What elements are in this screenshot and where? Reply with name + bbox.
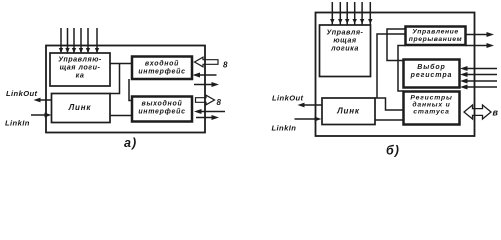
outer box b xyxy=(316,13,475,137)
arrowheads of top input arrows b xyxy=(330,19,372,24)
input interface block xyxy=(132,57,192,80)
wire xyxy=(331,2,333,25)
arrow out of input interface (right) xyxy=(194,84,214,86)
control logic block b xyxy=(320,25,371,77)
arrowheads of top input arrows a xyxy=(59,48,99,53)
wire xyxy=(67,28,69,53)
wire: interrupt ctrl to register select xyxy=(387,29,406,61)
svg-text:регистра: регистра xyxy=(410,72,453,79)
svg-text:8: 8 xyxy=(217,98,222,107)
wire: vertical branch to link xyxy=(119,64,121,95)
wire xyxy=(60,28,62,53)
svg-text:интерфейс: интерфейс xyxy=(138,68,185,76)
wire xyxy=(466,80,497,82)
arrow into input interface (solid, left) xyxy=(199,74,217,76)
interrupt output arrows xyxy=(466,34,491,36)
bus arrow out of output interface (hollow, pointing right) xyxy=(196,95,215,105)
wire xyxy=(80,28,82,53)
data/status registers block xyxy=(404,92,460,125)
svg-text:8: 8 xyxy=(223,61,228,70)
outer box a xyxy=(46,46,205,133)
control logic block a xyxy=(50,53,110,86)
svg-text:Регистры: Регистры xyxy=(410,95,452,102)
wire xyxy=(339,2,341,25)
link block b xyxy=(322,98,375,125)
bidirectional data bus arrow (hollow) xyxy=(464,105,491,119)
svg-text:данных и: данных и xyxy=(412,101,450,109)
wire xyxy=(96,28,98,53)
wire xyxy=(87,28,89,53)
wire xyxy=(369,2,371,25)
wire xyxy=(354,2,356,25)
svg-text:LinkIn: LinkIn xyxy=(272,124,297,133)
svg-text:выходной: выходной xyxy=(142,100,183,108)
LinkOut wire b xyxy=(301,104,322,106)
svg-text:входной: входной xyxy=(145,60,179,68)
wire: interrupt ctrl bottom to registers xyxy=(398,46,406,92)
wire: vertical bus V1 link to interrupt ctrl xyxy=(377,34,406,98)
wire: link top edge to bus junction xyxy=(110,93,120,95)
svg-text:прерыванием: прерыванием xyxy=(409,36,463,43)
wire xyxy=(73,28,75,53)
bus arrow into input interface (hollow, pointing left) xyxy=(195,57,219,67)
wire: link to registers bottom xyxy=(375,119,404,121)
svg-text:Линк: Линк xyxy=(336,107,360,116)
register select input arrows xyxy=(466,68,497,70)
wire xyxy=(346,2,348,25)
arrow into output interface (solid, left) xyxy=(199,111,225,113)
svg-text:статуса: статуса xyxy=(413,109,449,116)
wire xyxy=(466,45,491,47)
arrow out of output interface (right) xyxy=(196,117,215,119)
wire: input interface bottom to output interface xyxy=(129,79,132,101)
register select block xyxy=(404,60,460,88)
svg-text:Линк: Линк xyxy=(68,103,92,112)
svg-text:LinkIn: LinkIn xyxy=(5,119,30,128)
link block a xyxy=(52,94,111,123)
wire xyxy=(466,86,497,88)
LinkIn wire b xyxy=(295,118,317,120)
svg-text:LinkOut: LinkOut xyxy=(272,94,304,103)
svg-text:в: в xyxy=(493,108,499,118)
svg-text:Управление: Управление xyxy=(412,29,459,36)
svg-text:б): б) xyxy=(386,144,400,158)
interrupt control block xyxy=(406,27,466,46)
wire xyxy=(361,2,363,25)
LinkOut wire and arrow xyxy=(37,99,52,101)
LinkIn wire and arrow xyxy=(31,114,46,116)
wire: control logic to input interface xyxy=(110,63,132,65)
wire: link to output interface xyxy=(110,115,132,117)
svg-text:Выбор: Выбор xyxy=(417,63,445,71)
output interface block xyxy=(132,97,192,122)
wire: link top to registers xyxy=(375,98,404,110)
svg-text:а): а) xyxy=(124,136,137,150)
wire xyxy=(466,74,497,76)
svg-text:интерфейс: интерфейс xyxy=(138,108,185,116)
svg-text:ка: ка xyxy=(76,71,85,80)
svg-text:LinkOut: LinkOut xyxy=(6,89,38,98)
svg-text:логика: логика xyxy=(330,44,359,53)
